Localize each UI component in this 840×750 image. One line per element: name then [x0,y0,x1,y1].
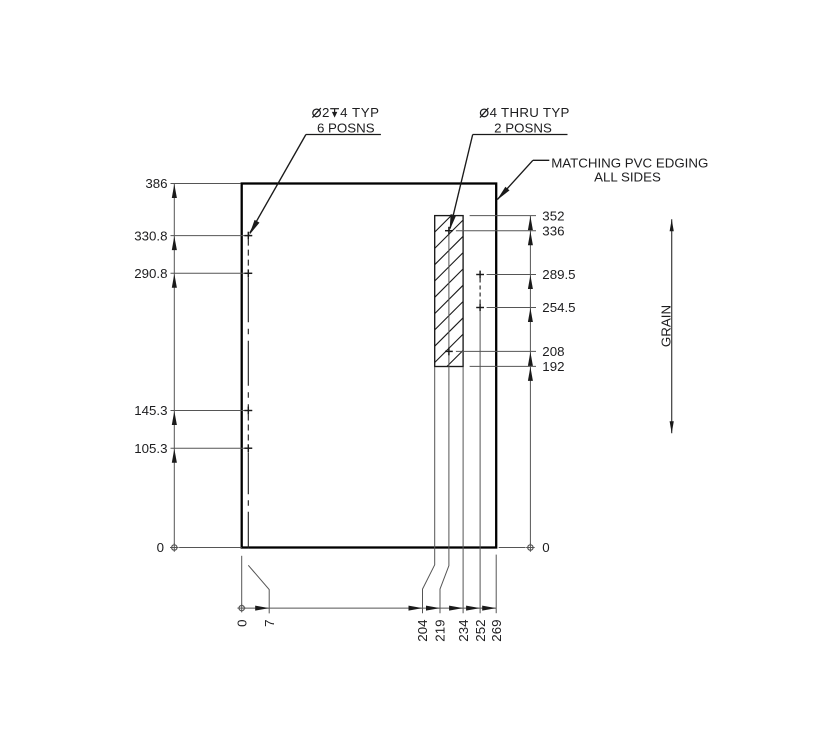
svg-text:289.5: 289.5 [542,267,575,282]
svg-text:4 TYP: 4 TYP [340,105,379,120]
svg-text:145.3: 145.3 [134,403,167,418]
svg-text:204: 204 [415,620,430,642]
svg-text:0: 0 [542,540,549,555]
svg-text:0: 0 [157,540,164,555]
svg-text:208: 208 [542,344,564,359]
svg-text:234: 234 [456,620,471,642]
svg-text:336: 336 [542,223,564,238]
svg-text:105.3: 105.3 [134,441,167,456]
svg-text:252: 252 [473,620,488,642]
svg-text:0: 0 [234,620,249,627]
svg-text:386: 386 [145,176,167,191]
svg-text:269: 269 [489,620,504,642]
svg-text:330.8: 330.8 [134,228,167,243]
svg-text:219: 219 [433,620,448,642]
svg-text:7: 7 [262,620,277,627]
svg-text:192: 192 [542,359,564,374]
svg-text:290.8: 290.8 [134,266,167,281]
svg-text:GRAIN: GRAIN [658,305,673,347]
svg-text:2 POSNS: 2 POSNS [494,120,552,135]
svg-text:352: 352 [542,208,564,223]
svg-text:6 POSNS: 6 POSNS [317,120,375,135]
svg-text:MATCHING PVC EDGING: MATCHING PVC EDGING [551,155,708,170]
svg-text:4 THRU TYP: 4 THRU TYP [490,105,570,120]
svg-text:254.5: 254.5 [542,300,575,315]
svg-text:ALL SIDES: ALL SIDES [594,169,661,184]
svg-text:2: 2 [322,105,329,120]
